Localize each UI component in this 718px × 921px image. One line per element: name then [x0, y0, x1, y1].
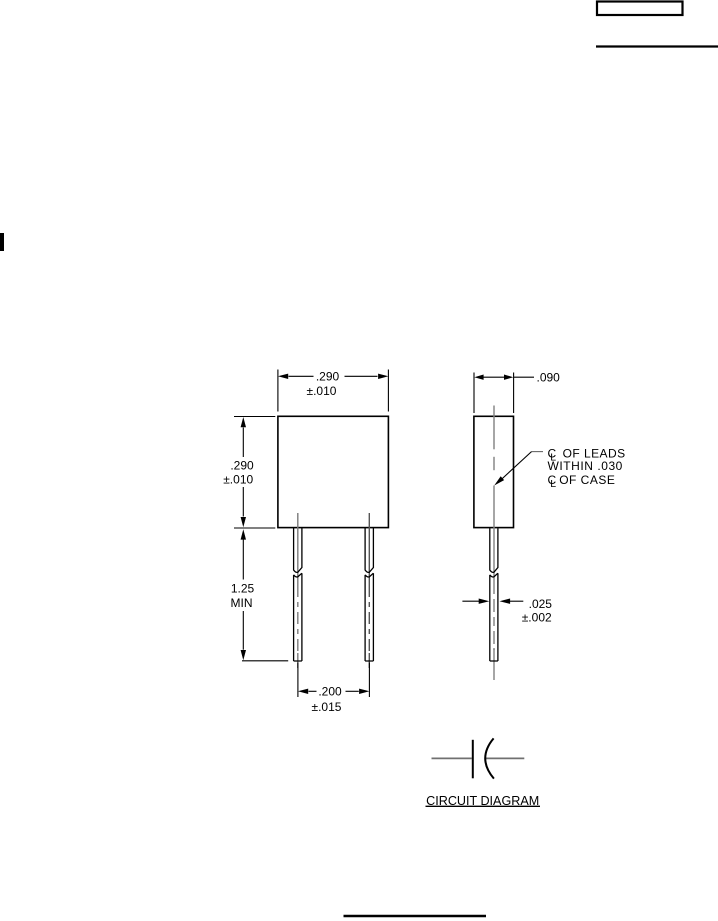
svg-text:±.002: ±.002 — [522, 611, 552, 625]
svg-text:MIN: MIN — [231, 596, 253, 610]
svg-text:WITHIN .030: WITHIN .030 — [548, 459, 623, 473]
svg-text:.200: .200 — [318, 685, 342, 699]
svg-text:.290: .290 — [316, 369, 340, 383]
svg-text:OF CASE: OF CASE — [559, 473, 615, 487]
svg-text:.025: .025 — [529, 597, 553, 611]
svg-text:.290: .290 — [230, 459, 254, 473]
svg-text:±.010: ±.010 — [223, 472, 253, 486]
svg-text:1.25: 1.25 — [231, 582, 255, 596]
svg-text:.090: .090 — [537, 371, 561, 385]
svg-text:±.010: ±.010 — [307, 384, 337, 398]
svg-text:±.015: ±.015 — [312, 700, 342, 714]
svg-text:L: L — [550, 478, 556, 490]
